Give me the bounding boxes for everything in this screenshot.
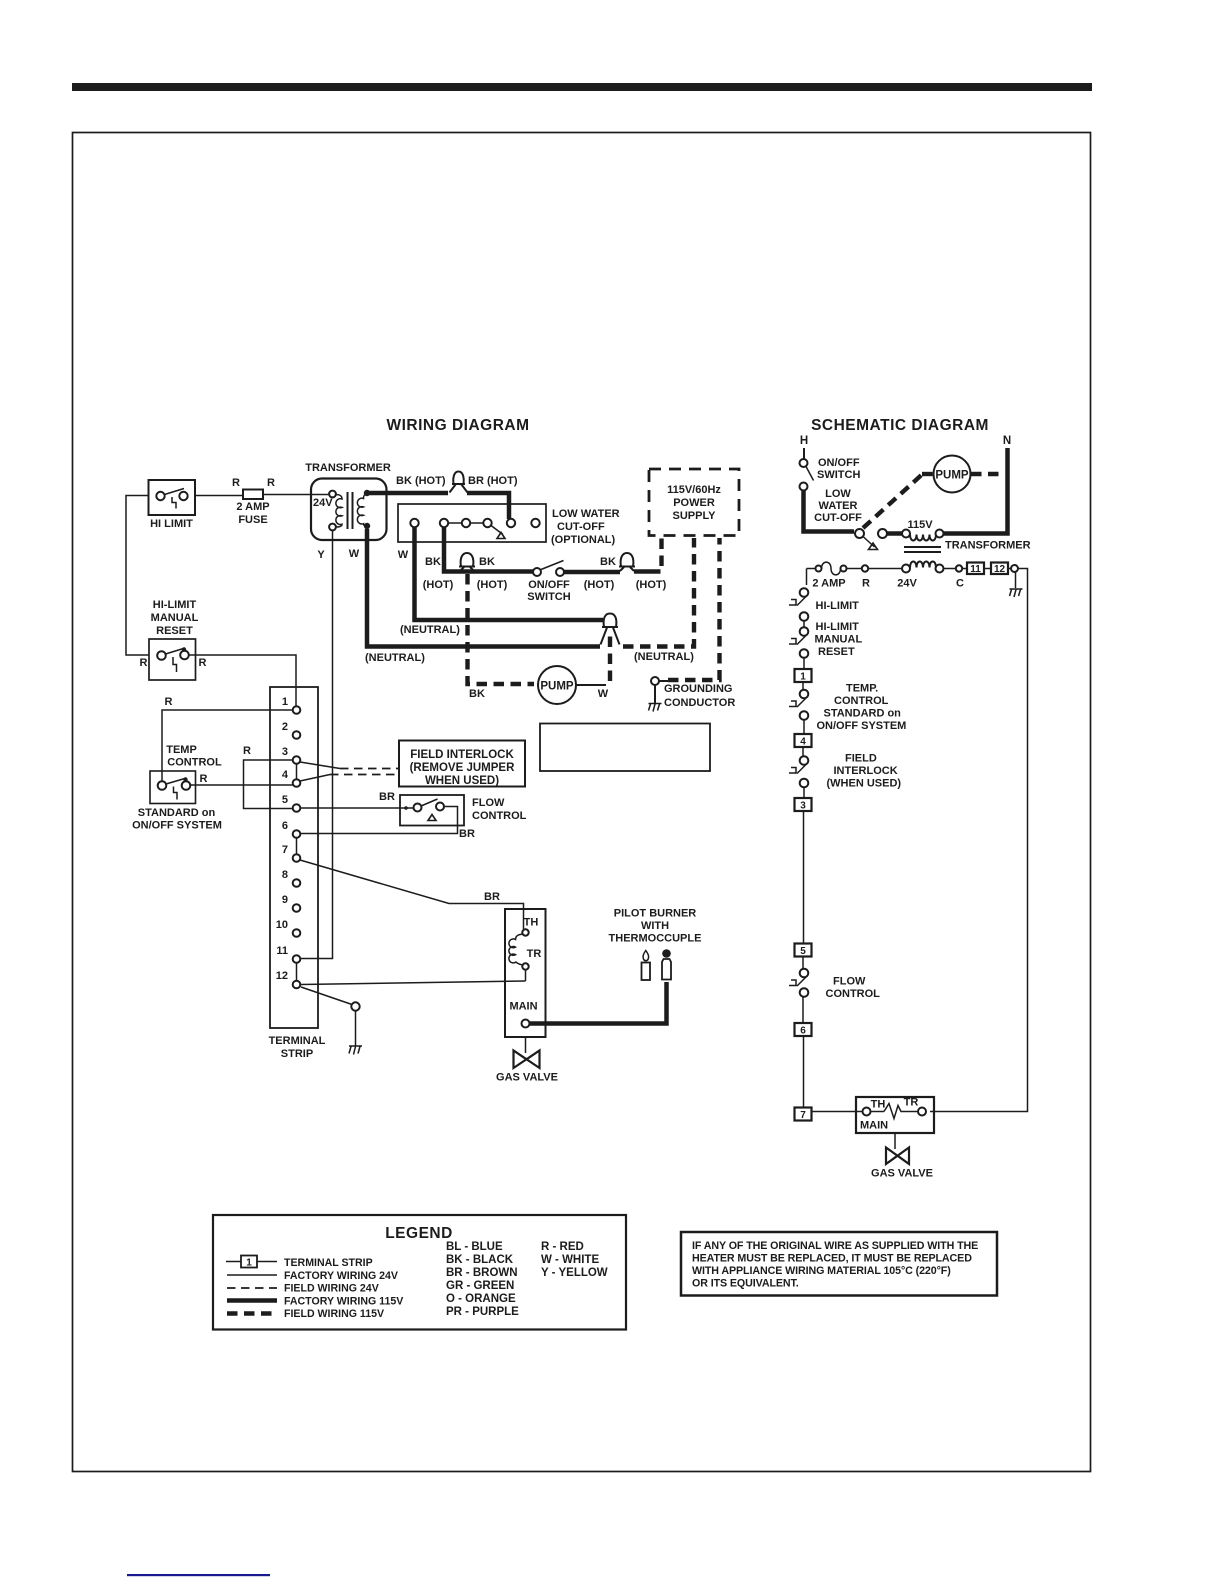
- legend: field wiring 115V: [227, 1308, 384, 1320]
- terminal box 5 (schematic): [795, 944, 812, 958]
- gas valve symbol (schematic): [871, 1133, 933, 1180]
- svg-text:STANDARD on: STANDARD on: [824, 708, 902, 720]
- svg-text:GROUNDING: GROUNDING: [664, 683, 732, 695]
- svg-text:GR - GREEN: GR - GREEN: [446, 1280, 514, 1292]
- on/off switch (wiring): [527, 561, 570, 604]
- svg-text:HEATER MUST BE REPLACED, IT MU: HEATER MUST BE REPLACED, IT MUST BE REPL…: [692, 1253, 972, 1265]
- pilot burner label: [609, 908, 702, 945]
- svg-text:(REMOVE JUMPER: (REMOVE JUMPER: [410, 762, 515, 774]
- pump (schematic): [934, 456, 971, 493]
- svg-text:SWITCH: SWITCH: [817, 469, 860, 481]
- svg-text:7: 7: [800, 1110, 806, 1121]
- terminal 7: [282, 844, 300, 862]
- svg-text:BL - BLUE: BL - BLUE: [446, 1241, 503, 1253]
- field interlock box: [399, 741, 525, 788]
- svg-text:7: 7: [282, 844, 288, 856]
- terminal 2: [282, 721, 300, 739]
- terminal 8: [282, 869, 300, 887]
- svg-text:(WHEN USED): (WHEN USED): [827, 778, 902, 790]
- wire: nut to low-water cutoff terminal 5 (BR hot): [467, 493, 509, 519]
- fuse 2 AMP: [232, 477, 275, 526]
- svg-text:TRANSFORMER: TRANSFORMER: [305, 462, 391, 474]
- svg-text:CUT-OFF: CUT-OFF: [557, 521, 605, 533]
- svg-text:5: 5: [282, 794, 288, 806]
- svg-text:TERMINAL STRIP: TERMINAL STRIP: [284, 1257, 373, 1269]
- wire: transformer W lead down and right (neutral 115V): [365, 529, 600, 664]
- svg-text:FIELD WIRING 115V: FIELD WIRING 115V: [284, 1308, 384, 1320]
- thermocouple icon: [662, 949, 671, 979]
- svg-text:24V: 24V: [897, 578, 917, 590]
- legend: factory wiring 115V: [227, 1296, 403, 1308]
- svg-text:W - WHITE: W - WHITE: [541, 1254, 599, 1266]
- wire: fuse to transformer: [263, 494, 329, 496]
- legend: color codes column 1: [446, 1241, 519, 1318]
- legend box: [213, 1215, 626, 1330]
- wire: low-water BK lead (hot) to on/off switch: [423, 527, 533, 591]
- wire: neutral nut dashed to power supply: [623, 538, 694, 663]
- svg-text:R: R: [267, 477, 275, 489]
- svg-text:BK: BK: [469, 688, 485, 700]
- pump dashed branch (schematic): [863, 474, 1005, 528]
- wire: transformer BK hot to wire nut: [369, 475, 448, 493]
- svg-text:MAIN: MAIN: [860, 1120, 888, 1132]
- svg-text:BR: BR: [484, 891, 500, 903]
- svg-text:Y: Y: [317, 549, 325, 561]
- svg-text:STANDARD on: STANDARD on: [138, 807, 216, 819]
- wire nut BK hot (right): [619, 553, 635, 571]
- svg-text:10: 10: [276, 919, 288, 931]
- svg-text:12: 12: [276, 970, 288, 982]
- svg-text:FIELD: FIELD: [845, 753, 877, 765]
- svg-text:BR - BROWN: BR - BROWN: [446, 1267, 518, 1279]
- svg-text:PILOT BURNER: PILOT BURNER: [614, 908, 697, 920]
- svg-text:WHEN USED): WHEN USED): [425, 775, 499, 787]
- svg-text:R: R: [140, 657, 148, 669]
- wire: on/off switch to BK nut right: [564, 556, 667, 591]
- svg-text:CONTROL: CONTROL: [834, 695, 889, 707]
- wire: box 6 down to box 7: [803, 1036, 805, 1108]
- jumper link terminals 6-7: [296, 838, 298, 854]
- svg-text:4: 4: [800, 737, 806, 748]
- svg-text:3: 3: [800, 801, 806, 812]
- wire: BK dashed to pump: [468, 574, 535, 700]
- svg-text:(NEUTRAL): (NEUTRAL): [634, 651, 694, 663]
- wire: hi-limit left rail down to manual reset: [126, 496, 149, 656]
- svg-text:24V: 24V: [313, 497, 333, 509]
- svg-text:LOW WATER: LOW WATER: [552, 508, 620, 520]
- wire: gas valve MAIN to thermocouple: [530, 982, 667, 1024]
- svg-text:R - RED: R - RED: [541, 1241, 584, 1253]
- svg-text:SWITCH: SWITCH: [527, 591, 570, 603]
- svg-text:FUSE: FUSE: [238, 514, 267, 526]
- svg-text:HI-LIMIT: HI-LIMIT: [816, 621, 860, 633]
- svg-text:ON/OFF SYSTEM: ON/OFF SYSTEM: [132, 820, 222, 832]
- grounding conductor: [649, 538, 736, 712]
- svg-text:6: 6: [282, 820, 288, 832]
- svg-text:FIELD WIRING 24V: FIELD WIRING 24V: [284, 1283, 379, 1295]
- jumper link terminals 3-4: [296, 764, 298, 779]
- svg-text:FLOW: FLOW: [833, 976, 866, 988]
- on/off switch (schematic): [800, 448, 861, 491]
- terminal 10: [276, 919, 301, 937]
- wire: secondary left to fuse: [847, 565, 902, 589]
- svg-text:C: C: [956, 578, 964, 590]
- wire: terminal 7 BR to gas valve TH: [300, 860, 524, 929]
- svg-text:2 AMP: 2 AMP: [812, 578, 845, 590]
- svg-text:11: 11: [276, 945, 288, 957]
- legend: field wiring 24V: [227, 1283, 379, 1295]
- hi-limit switch box: [149, 480, 196, 530]
- wire: terminal 3 dashed to field interlock: [300, 762, 399, 769]
- svg-text:Y - YELLOW: Y - YELLOW: [541, 1267, 608, 1279]
- svg-text:(HOT): (HOT): [636, 579, 667, 591]
- legend: factory wiring 24V: [227, 1270, 398, 1282]
- svg-text:CONTROL: CONTROL: [167, 757, 222, 769]
- temp control switch (schematic): [789, 682, 906, 732]
- svg-text:GAS VALVE: GAS VALVE: [496, 1072, 558, 1084]
- node H: [800, 435, 808, 447]
- hi-limit manual reset switch (schematic): [789, 621, 862, 658]
- terminal box 3 (schematic): [795, 788, 812, 812]
- svg-text:(HOT): (HOT): [584, 579, 615, 591]
- wire: manual reset to terminal 1: [189, 655, 296, 706]
- gas valve operator box (schematic): [856, 1097, 934, 1134]
- flow control switch (schematic): [789, 957, 880, 1001]
- wire: transformer Y lead down to terminal 11: [300, 531, 333, 959]
- top header bar: [72, 83, 1092, 91]
- low water cut-off box: [398, 504, 620, 546]
- svg-text:WATER: WATER: [819, 500, 858, 512]
- svg-text:W: W: [349, 548, 360, 560]
- wire: box 3 down to box 5: [803, 811, 805, 944]
- svg-text:WIRING DIAGRAM: WIRING DIAGRAM: [386, 417, 529, 434]
- svg-text:FLOW: FLOW: [472, 797, 505, 809]
- jumper link terminals 11-12: [296, 963, 298, 981]
- svg-text:115V/60Hz: 115V/60Hz: [667, 484, 721, 496]
- terminal box 7 (schematic): [795, 1108, 812, 1122]
- wire: temp control to terminal 4: [191, 784, 293, 786]
- svg-text:BK - BLACK: BK - BLACK: [446, 1254, 514, 1266]
- wire: terminal 12 to gas valve TR: [301, 981, 526, 985]
- svg-text:BR: BR: [379, 791, 395, 803]
- svg-text:ON/OFF: ON/OFF: [528, 579, 570, 591]
- hi-limit switch (schematic): [789, 588, 859, 621]
- node N: [1003, 435, 1011, 447]
- fuse 2 AMP (schematic): [812, 562, 846, 589]
- svg-text:PUMP: PUMP: [935, 470, 969, 482]
- svg-text:(NEUTRAL): (NEUTRAL): [400, 624, 460, 636]
- terminal 1: [282, 696, 300, 714]
- svg-text:2 AMP: 2 AMP: [236, 501, 269, 513]
- svg-text:LEGEND: LEGEND: [385, 1225, 453, 1242]
- svg-text:GAS VALVE: GAS VALVE: [871, 1168, 933, 1180]
- svg-text:TEMP: TEMP: [166, 744, 197, 756]
- svg-text:11: 11: [970, 564, 981, 575]
- svg-text:FACTORY WIRING 115V: FACTORY WIRING 115V: [284, 1296, 403, 1308]
- svg-text:SCHEMATIC DIAGRAM: SCHEMATIC DIAGRAM: [811, 417, 989, 434]
- svg-text:(OPTIONAL): (OPTIONAL): [551, 534, 615, 546]
- svg-text:TRANSFORMER: TRANSFORMER: [945, 540, 1031, 552]
- field interlock switch (schematic): [789, 747, 901, 790]
- wiring diagram title: [386, 417, 529, 434]
- svg-text:9: 9: [282, 894, 288, 906]
- terminal 5: [282, 794, 300, 812]
- svg-text:MANUAL: MANUAL: [815, 634, 863, 646]
- svg-text:BK (HOT): BK (HOT): [396, 475, 446, 487]
- svg-text:8: 8: [282, 869, 288, 881]
- svg-text:ON/OFF SYSTEM: ON/OFF SYSTEM: [817, 720, 907, 732]
- 115V/60Hz power supply box: [649, 469, 739, 536]
- terminal 3: [282, 746, 300, 764]
- svg-text:W: W: [598, 688, 609, 700]
- transformer primary (schematic): [902, 519, 944, 541]
- wire: primary to N rail: [944, 448, 1008, 536]
- flow control box: [400, 795, 527, 826]
- svg-text:3: 3: [282, 746, 288, 758]
- wire: BK nut to power supply (field hot): [634, 538, 662, 572]
- wire nut neutral junction: [601, 614, 620, 645]
- legend: color codes column 2: [541, 1241, 608, 1279]
- svg-text:ON/OFF: ON/OFF: [818, 457, 860, 469]
- svg-text:BK: BK: [425, 556, 441, 568]
- svg-text:HI-LIMIT: HI-LIMIT: [816, 600, 860, 612]
- page border frame: [73, 133, 1091, 1472]
- svg-text:TR: TR: [904, 1097, 919, 1109]
- svg-text:TERMINAL: TERMINAL: [269, 1035, 326, 1047]
- svg-text:POWER: POWER: [673, 497, 715, 509]
- svg-text:IF ANY OF THE ORIGINAL WIRE AS: IF ANY OF THE ORIGINAL WIRE AS SUPPLIED …: [692, 1240, 978, 1252]
- terminal 4: [282, 769, 300, 787]
- svg-text:1: 1: [282, 696, 288, 708]
- pilot burner flame icon: [642, 951, 651, 981]
- svg-text:STRIP: STRIP: [281, 1048, 313, 1060]
- wire: cutoff to transformer primary: [887, 531, 902, 536]
- gas valve operator box (wiring): [505, 909, 546, 1037]
- svg-text:RESET: RESET: [156, 625, 193, 637]
- wire: fuse to hi-limit: [807, 569, 816, 586]
- svg-text:TH: TH: [871, 1099, 886, 1111]
- svg-text:FACTORY WIRING 24V: FACTORY WIRING 24V: [284, 1270, 398, 1282]
- terminal 11: [276, 945, 300, 963]
- wire nut BK/BR: [450, 472, 518, 493]
- svg-text:FIELD INTERLOCK: FIELD INTERLOCK: [410, 749, 514, 761]
- wire: on/off down to low water cutoff (hot rail): [804, 491, 855, 532]
- svg-text:MANUAL: MANUAL: [151, 612, 199, 624]
- svg-text:6: 6: [800, 1026, 806, 1037]
- svg-text:PR - PURPLE: PR - PURPLE: [446, 1306, 519, 1318]
- 24V C lead with terminal boxes 11-12: [944, 563, 1019, 590]
- svg-text:(NEUTRAL): (NEUTRAL): [365, 652, 425, 664]
- svg-text:TH: TH: [524, 917, 539, 929]
- svg-text:PUMP: PUMP: [540, 681, 574, 693]
- wire: 24V right rail down to gas valve TR: [930, 569, 1028, 1112]
- svg-text:CUT-OFF: CUT-OFF: [814, 512, 862, 524]
- wire: flow control to terminal 6: [301, 807, 475, 841]
- svg-text:HI LIMIT: HI LIMIT: [150, 518, 193, 530]
- svg-text:N: N: [1003, 435, 1011, 447]
- temp control box: [132, 744, 222, 832]
- terminal box 1 (schematic): [795, 658, 812, 683]
- svg-text:R: R: [862, 578, 870, 590]
- hi-limit manual reset box: [140, 599, 207, 680]
- low water cut-off switch (schematic): [814, 488, 887, 550]
- svg-text:W: W: [398, 549, 409, 561]
- svg-text:WITH APPLIANCE WIRING MATERIAL: WITH APPLIANCE WIRING MATERIAL 105°C (22…: [692, 1265, 951, 1277]
- svg-text:HI-LIMIT: HI-LIMIT: [153, 599, 197, 611]
- pump (wiring): [538, 666, 606, 704]
- svg-text:115V: 115V: [907, 519, 933, 531]
- svg-text:(HOT): (HOT): [423, 579, 454, 591]
- svg-text:MAIN: MAIN: [509, 1001, 537, 1013]
- wire: terminal 4 dashed to field interlock: [300, 775, 399, 782]
- terminal box 4 (schematic): [795, 720, 812, 748]
- transformer (wiring): [305, 462, 391, 561]
- svg-text:TR: TR: [527, 948, 542, 960]
- svg-text:2: 2: [282, 721, 288, 733]
- svg-text:12: 12: [994, 564, 1006, 575]
- terminal 12: [276, 970, 301, 988]
- terminal box 6 (schematic): [795, 997, 812, 1037]
- svg-text:(HOT): (HOT): [477, 579, 508, 591]
- gas valve symbol (wiring): [496, 1037, 558, 1084]
- transformer secondary (schematic): [897, 562, 943, 590]
- wire: box 7 to gas valve TH: [812, 1111, 863, 1113]
- svg-text:1: 1: [800, 672, 806, 683]
- schematic diagram title: [811, 417, 989, 434]
- wire: R jumper terminal 3 to terminal 5: [243, 745, 292, 809]
- svg-text:WITH: WITH: [641, 920, 669, 932]
- ground stub (schematic): [1010, 572, 1023, 597]
- wire: temp control to terminal 1: [162, 696, 293, 781]
- transformer core (schematic): [904, 540, 1031, 553]
- wire nut BK hot (left): [459, 553, 475, 571]
- empty note box: [540, 724, 710, 772]
- svg-text:O - ORANGE: O - ORANGE: [446, 1293, 516, 1305]
- svg-text:R: R: [165, 696, 173, 708]
- svg-text:TEMP.: TEMP.: [846, 683, 878, 695]
- svg-text:CONDUCTOR: CONDUCTOR: [664, 697, 735, 709]
- svg-text:BR: BR: [459, 828, 475, 840]
- terminal 6: [282, 820, 300, 838]
- svg-text:H: H: [800, 435, 808, 447]
- svg-text:SUPPLY: SUPPLY: [672, 510, 716, 522]
- svg-text:RESET: RESET: [818, 646, 855, 658]
- svg-text:R: R: [200, 773, 208, 785]
- svg-text:THERMOCCUPLE: THERMOCCUPLE: [609, 933, 702, 945]
- svg-text:1: 1: [246, 1258, 252, 1269]
- wire: hi-limit to fuse: [195, 495, 243, 497]
- wire: terminal 5 to flow control: [301, 791, 414, 810]
- svg-text:R: R: [232, 477, 240, 489]
- svg-text:BK: BK: [479, 556, 495, 568]
- svg-text:CONTROL: CONTROL: [826, 988, 881, 1000]
- terminal 9: [282, 894, 300, 912]
- svg-text:INTERLOCK: INTERLOCK: [834, 765, 898, 777]
- svg-text:4: 4: [282, 769, 289, 781]
- wire: low-water W lead (neutral): [398, 527, 603, 636]
- terminal strip box: [269, 687, 326, 1060]
- svg-text:BR (HOT): BR (HOT): [468, 475, 518, 487]
- wire: pump W dashed up to neutral nut: [598, 631, 610, 700]
- svg-text:OR ITS EQUIVALENT.: OR ITS EQUIVALENT.: [692, 1278, 799, 1290]
- svg-text:R: R: [243, 745, 251, 757]
- legend: terminal strip symbol: [226, 1256, 373, 1270]
- wire: terminal 12 to ground: [301, 987, 362, 1055]
- svg-text:R: R: [199, 657, 207, 669]
- svg-text:LOW: LOW: [825, 488, 851, 500]
- svg-text:BK: BK: [600, 556, 616, 568]
- replacement wire notice box: [681, 1232, 997, 1296]
- svg-text:CONTROL: CONTROL: [472, 810, 527, 822]
- svg-text:5: 5: [800, 946, 806, 957]
- footer link line: [127, 1574, 270, 1576]
